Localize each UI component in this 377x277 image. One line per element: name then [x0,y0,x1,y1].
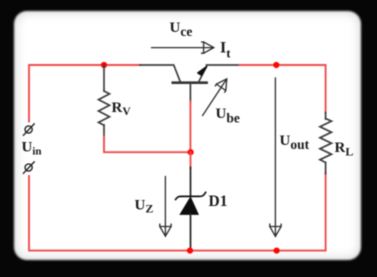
svg-text:UZ: UZ [135,197,154,215]
wire: top rail right segment to output corner (red) [240,65,326,113]
wire: collector lead dark segment [140,65,180,81]
svg-text:Uce: Uce [170,20,193,39]
node: red dot at node A (Rv top / input rail) [101,62,107,68]
resistor RV top lead [103,65,105,91]
transistor Q1 base lead (dark part) [189,83,191,102]
wire: base lead red part down to junction [189,102,191,153]
svg-text:D1: D1 [209,193,228,210]
svg-text:Ube: Ube [216,106,240,126]
wire: zener top lead red part [190,152,192,168]
node: red dot bottom rail below zener [187,248,193,254]
zener D1 anode triangle (points up) [180,197,198,214]
zener D1 cathode lead (dark) [190,168,192,197]
zener D1 anode lead (dark) [190,214,192,249]
resistor RL bottom lead (dark) [325,163,327,174]
node: red dot on top rail at Uout tap [273,62,279,68]
arrow Uce (measurement, points right) [152,42,214,53]
transistor Q1 base bar [173,81,207,84]
wire: bottom rail (red) [29,173,326,251]
resistor RL zigzag body [320,119,332,163]
arrow Ube (measurement, diagonal up-right) [203,79,227,116]
wire: Rv bottom to junction (red) [104,137,191,153]
resistor RL top lead (dark) [325,113,327,120]
resistor RV bottom lead (dark) [103,125,105,137]
node: red junction dot base/zener [188,149,194,155]
svg-text:RV: RV [112,100,132,118]
transistor Q1 emitter arrow (filled) [198,67,207,76]
wire: top rail left segment, input+ to node A (red) [29,65,141,122]
wire: emitter dark segment to the right [207,64,241,66]
terminal: input lower (circle with slash) [23,162,34,173]
node: red dot bottom rail at Uout tap [274,248,280,254]
svg-text:Uin: Uin [22,140,42,158]
transistor Q1 emitter diagonal [199,67,207,83]
arrow Uout (measurement, points down) [270,78,281,236]
arrow Uz (measurement, points down) [160,177,171,237]
svg-text:Uout: Uout [280,133,310,152]
zener D1 cathode bar with bent tips [176,192,206,199]
resistor RV zigzag body [99,91,110,125]
svg-text:RL: RL [335,140,354,159]
svg-text:It: It [220,40,231,61]
terminal: input upper (circle with slash) [23,124,34,135]
